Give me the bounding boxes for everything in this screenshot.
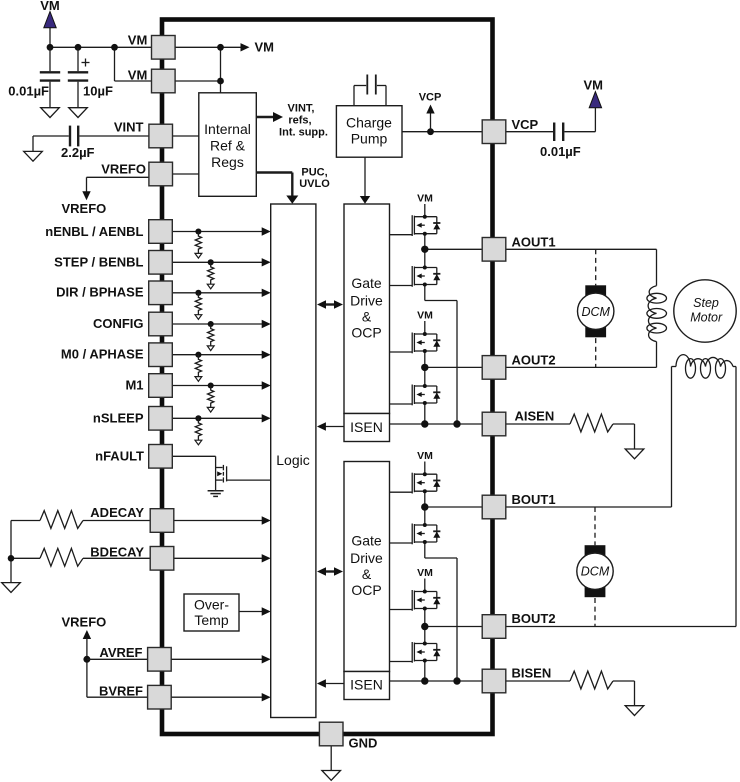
svg-text:ISEN: ISEN	[350, 419, 383, 435]
svg-text:Drive: Drive	[350, 293, 383, 309]
svg-text:Int. supp.: Int. supp.	[279, 127, 328, 139]
svg-text:VINT: VINT	[114, 120, 144, 135]
svg-text:OCP: OCP	[351, 325, 381, 341]
svg-text:0.01µF: 0.01µF	[540, 144, 581, 159]
svg-text:PUC,: PUC,	[301, 167, 327, 179]
svg-text:Pump: Pump	[351, 131, 388, 147]
svg-text:AOUT2: AOUT2	[512, 353, 556, 368]
svg-text:VREFO: VREFO	[62, 615, 107, 630]
svg-text:VINT,: VINT,	[288, 103, 315, 115]
svg-text:STEP / BENBL: STEP / BENBL	[54, 255, 143, 270]
svg-text:Motor: Motor	[690, 310, 723, 324]
svg-text:10µF: 10µF	[83, 84, 113, 99]
svg-text:UVLO: UVLO	[299, 178, 330, 190]
svg-text:Regs: Regs	[211, 154, 244, 170]
svg-text:nSLEEP: nSLEEP	[93, 410, 144, 425]
svg-text:GND: GND	[349, 736, 378, 751]
svg-text:DIR / BPHASE: DIR / BPHASE	[56, 285, 144, 300]
svg-text:VM: VM	[128, 68, 148, 83]
svg-text:Internal: Internal	[204, 121, 251, 137]
svg-text:Gate: Gate	[351, 275, 382, 291]
svg-text:VCP: VCP	[419, 92, 442, 104]
svg-text:VM: VM	[255, 40, 275, 55]
svg-text:CONFIG: CONFIG	[93, 316, 144, 331]
svg-text:BOUT1: BOUT1	[512, 492, 556, 507]
svg-text:VM: VM	[40, 0, 60, 13]
svg-text:nFAULT: nFAULT	[95, 449, 144, 464]
svg-text:VM: VM	[417, 567, 433, 579]
svg-text:BDECAY: BDECAY	[90, 545, 144, 560]
svg-text:M0 / APHASE: M0 / APHASE	[61, 347, 144, 362]
svg-text:VM: VM	[128, 33, 148, 48]
svg-text:ISEN: ISEN	[350, 677, 383, 693]
svg-text:VM: VM	[583, 78, 603, 93]
svg-text:ADECAY: ADECAY	[90, 505, 144, 520]
svg-text:VCP: VCP	[512, 117, 539, 132]
svg-text:AVREF: AVREF	[99, 645, 142, 660]
svg-text:Drive: Drive	[350, 550, 383, 566]
svg-text:Charge: Charge	[346, 115, 392, 131]
svg-text:Step: Step	[693, 296, 719, 310]
svg-text:VM: VM	[417, 193, 433, 205]
svg-text:VREFO: VREFO	[62, 201, 107, 216]
svg-text:2.2µF: 2.2µF	[61, 145, 95, 160]
svg-text:M1: M1	[125, 378, 143, 393]
svg-text:BVREF: BVREF	[99, 683, 143, 698]
svg-text:VREFO: VREFO	[101, 162, 146, 177]
svg-text:BISEN: BISEN	[512, 666, 552, 681]
svg-text:&: &	[362, 309, 372, 325]
svg-text:0.01µF: 0.01µF	[8, 84, 49, 99]
svg-text:AOUT1: AOUT1	[512, 235, 556, 250]
svg-text:refs,: refs,	[288, 115, 311, 127]
svg-text:&: &	[362, 566, 372, 582]
svg-text:BOUT2: BOUT2	[512, 611, 556, 626]
svg-text:Logic: Logic	[276, 452, 309, 468]
svg-text:OCP: OCP	[351, 582, 381, 598]
svg-text:Gate: Gate	[351, 533, 382, 549]
svg-text:Temp: Temp	[194, 612, 228, 628]
svg-text:AISEN: AISEN	[515, 409, 555, 424]
svg-text:Over-: Over-	[194, 597, 229, 613]
svg-text:Ref &: Ref &	[210, 138, 246, 154]
svg-text:nENBL / AENBL: nENBL / AENBL	[45, 224, 143, 239]
svg-text:VM: VM	[417, 310, 433, 322]
svg-text:VM: VM	[417, 450, 433, 462]
